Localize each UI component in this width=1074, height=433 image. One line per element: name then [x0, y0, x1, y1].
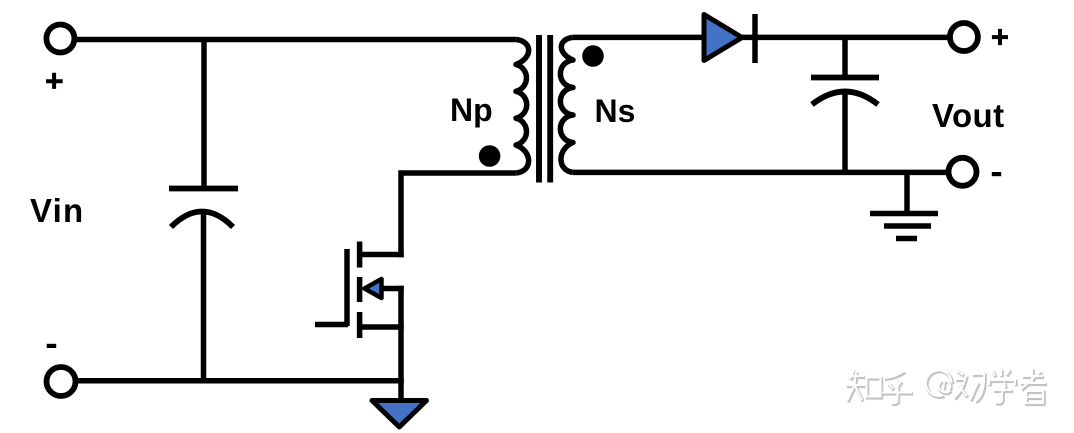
svg-text:Ns: Ns: [595, 93, 636, 129]
wire transformer primary bottom to drain: [398, 170, 516, 257]
watermark zhihu: [847, 369, 1047, 404]
capacitor C2 top plate: [811, 75, 879, 81]
wire top-left rail Vin+ to transformer: [76, 37, 516, 43]
transistor Q1 channel bar middle: [357, 277, 363, 302]
transistor Q1 channel bar bottom: [357, 312, 363, 338]
diode D1 cathode bar: [752, 14, 758, 63]
wire secondary bottom rail to Vout-: [573, 170, 946, 176]
transformer T1 primary winding Np: [516, 40, 529, 174]
transformer T1 core bar left: [536, 35, 542, 183]
polarity dot secondary: [582, 45, 604, 67]
transformer T1 core bar right: [547, 35, 553, 183]
capacitor C1 top plate: [169, 186, 238, 192]
ground symbol under MOSFET (triangle): [372, 401, 427, 428]
capacitor C1 curved plate: [171, 212, 233, 228]
transistor Q1 body arrow: [365, 279, 382, 298]
label minus input: [47, 344, 57, 348]
wire drain lead: [358, 252, 404, 258]
svg-text:Vin: Vin: [30, 192, 84, 229]
wire C2 upper lead: [842, 37, 848, 78]
polarity dot primary: [479, 145, 501, 167]
label plus output: [992, 29, 1008, 45]
wire C1 lower lead: [201, 210, 207, 381]
ground earth bar 2: [884, 223, 931, 229]
terminal Vout-: [949, 158, 977, 186]
wire ground stub: [904, 172, 910, 213]
transformer T1 secondary winding Ns: [560, 37, 573, 172]
transistor Q1 gate bar: [344, 249, 350, 326]
wire source lead: [358, 324, 404, 330]
label minus output: [992, 172, 1001, 176]
ground earth bar 1: [870, 211, 938, 217]
wire junction down to input cap: [201, 40, 207, 189]
wire secondary top rail to diode and Vout+: [573, 35, 948, 41]
wire C2 lower lead: [842, 90, 848, 172]
capacitor C2 curved plate: [812, 92, 878, 105]
svg-text:Np: Np: [450, 92, 493, 128]
wire source down to ground: [398, 286, 404, 398]
terminal Vout+: [950, 23, 978, 51]
terminal Vin-: [47, 367, 76, 396]
svg-text:Vout: Vout: [932, 97, 1004, 134]
wire gate lead: [315, 322, 348, 328]
wire body lead: [381, 286, 404, 292]
wire bottom rail Vin- to MOSFET source: [75, 378, 404, 384]
ground earth bar 3: [896, 236, 917, 242]
terminal Vin+: [46, 25, 74, 53]
transistor Q1 channel bar top: [357, 242, 363, 268]
label plus input: [46, 73, 63, 89]
diode D1 triangle: [704, 15, 742, 61]
